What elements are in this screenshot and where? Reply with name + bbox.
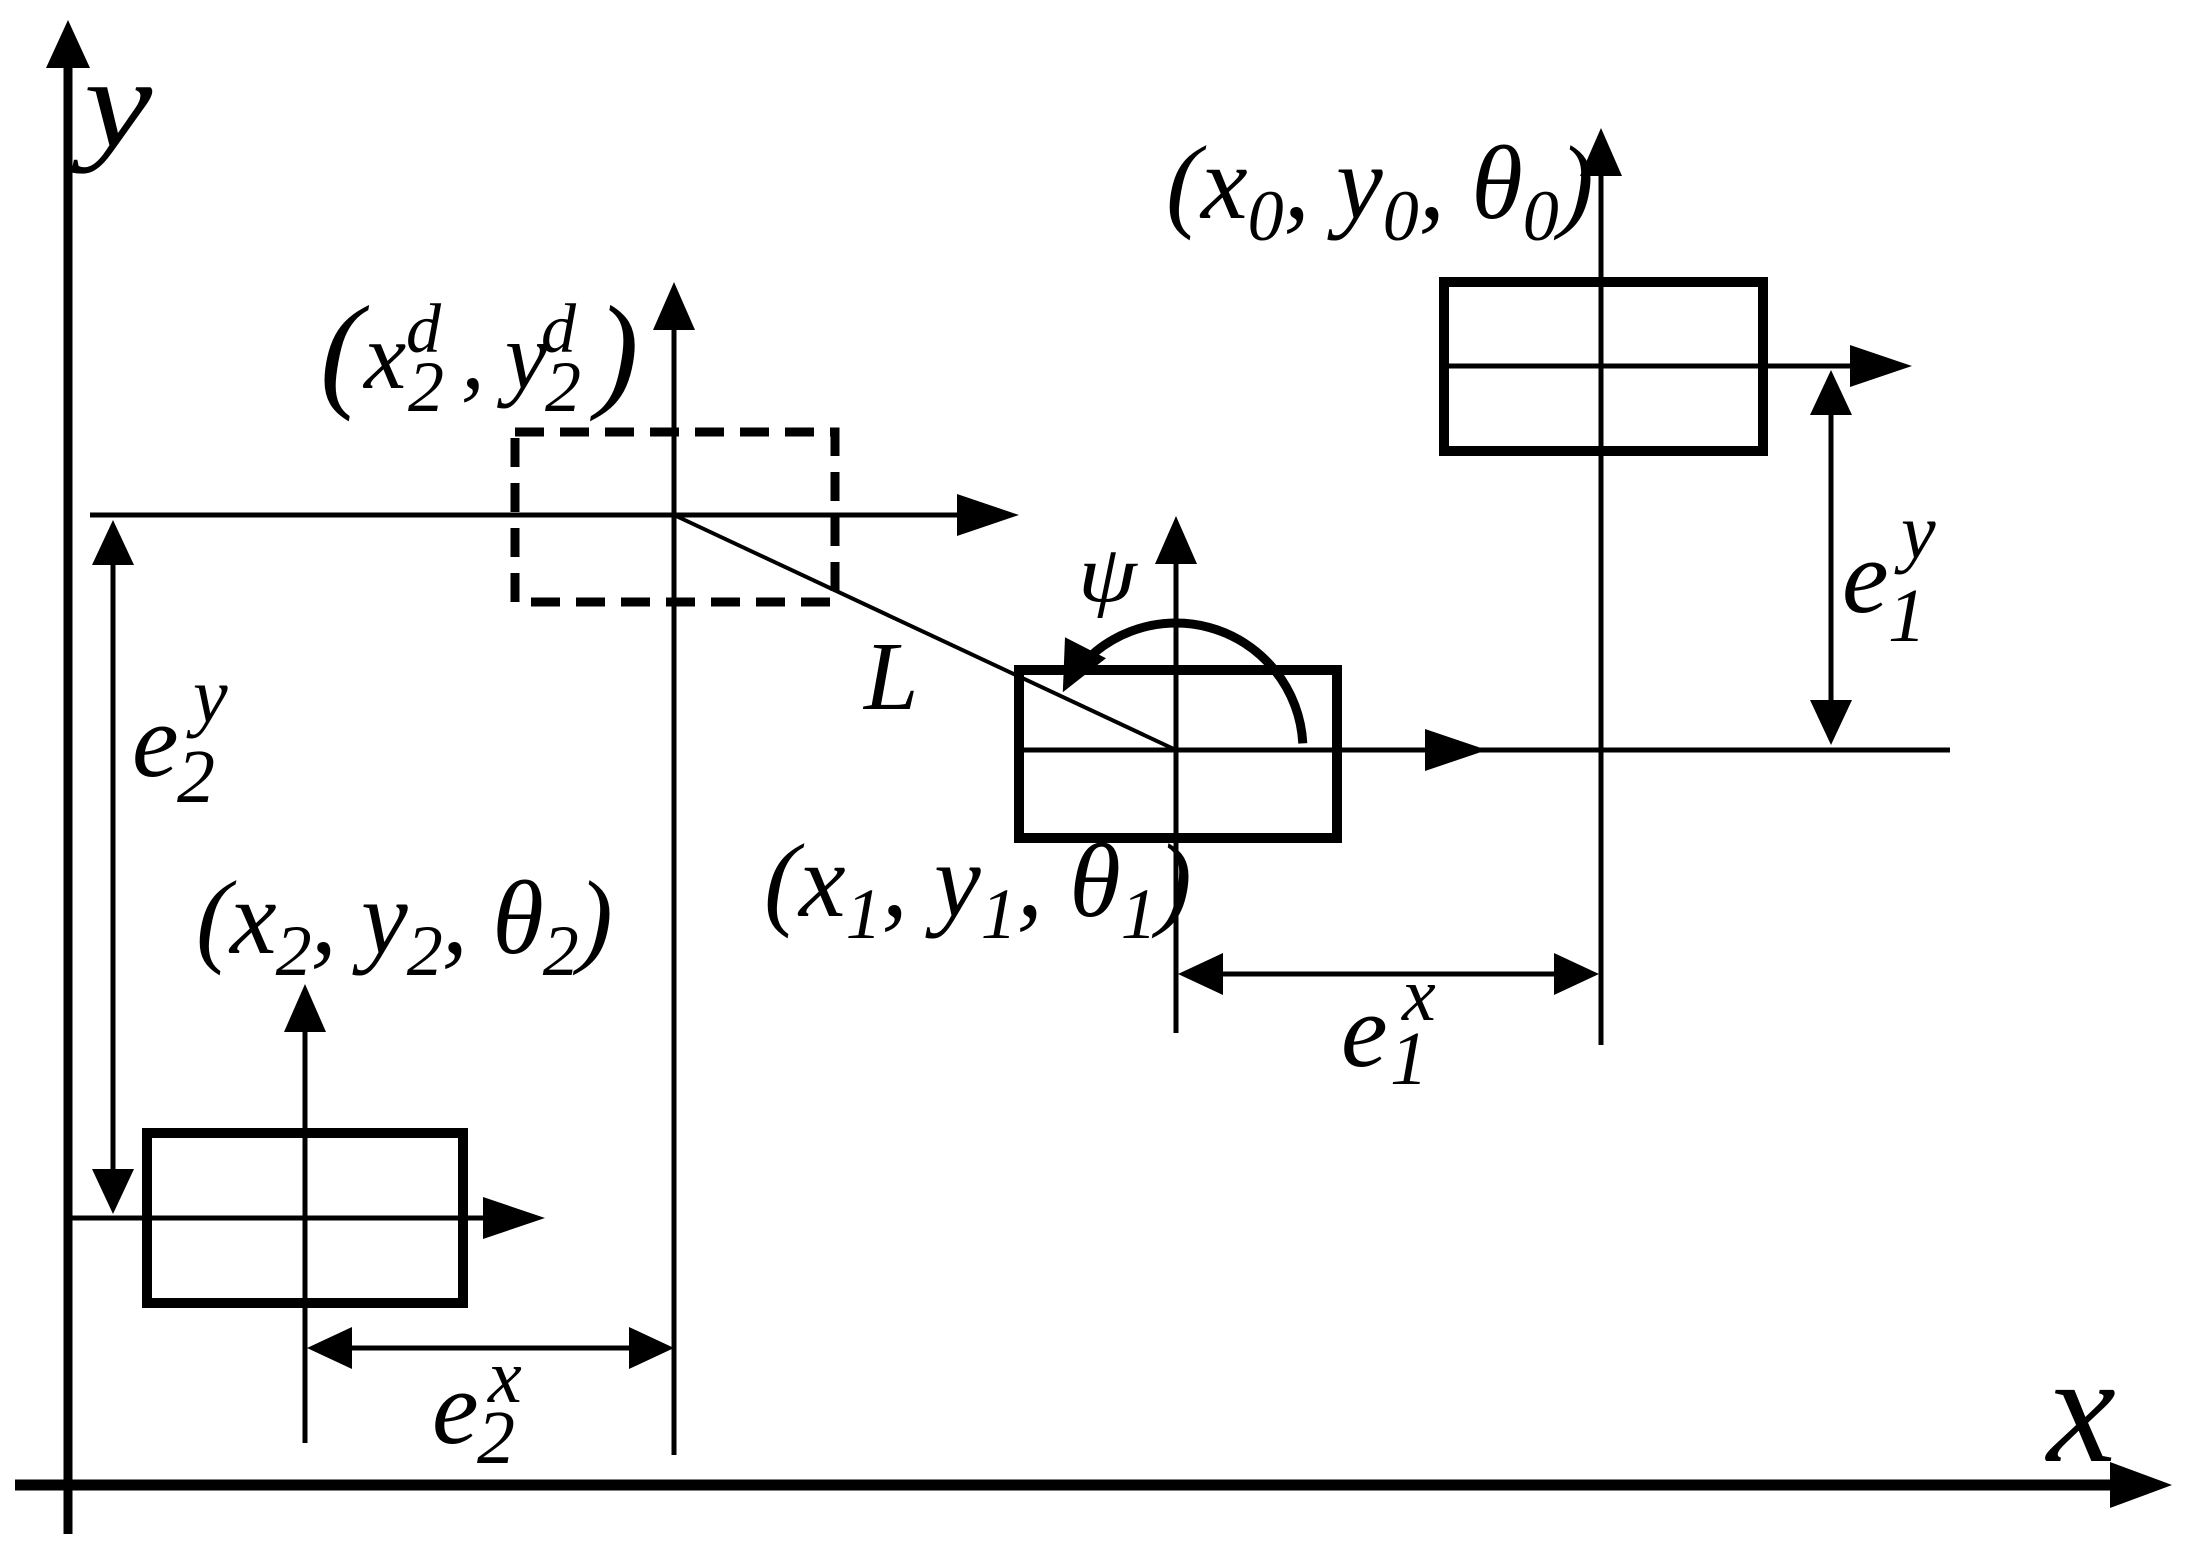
wire psi arc	[1063, 623, 1303, 743]
svg-text:L: L	[862, 623, 919, 731]
node (x0,y0,theta0) label	[1166, 124, 1594, 256]
dimension e2y	[92, 520, 134, 1214]
node e2x label	[432, 1335, 522, 1480]
vehicle 0	[1444, 282, 1763, 451]
wire desired pose y-axis	[653, 282, 695, 1455]
wire vehicle0 x-axis	[1444, 345, 1912, 387]
svg-text:ex2: ex2	[432, 1335, 522, 1480]
wire L line	[674, 515, 1176, 750]
node e2y label	[132, 652, 228, 819]
dimension e1y	[1810, 370, 1852, 745]
wire vehicle0 y-axis	[1580, 128, 1622, 1045]
svg-text:ψ: ψ	[1078, 530, 1138, 619]
dimension e1x	[1178, 953, 1599, 995]
node e1y label	[1842, 488, 1936, 658]
wire vehicle2 y-axis	[284, 984, 326, 1443]
desired pose dashed rect	[515, 432, 835, 602]
vehicle 1	[1019, 670, 1337, 838]
vehicle 2	[147, 1133, 463, 1303]
node (x1,y1,theta1) label	[764, 822, 1192, 954]
node (x2,y2,theta2) label	[196, 859, 612, 991]
wire desired pose x-axis	[90, 494, 1019, 536]
svg-text:y: y	[71, 32, 152, 174]
axis x	[15, 1462, 2172, 1508]
axis y	[46, 20, 90, 1534]
node e1x label	[1341, 953, 1436, 1101]
dimension e2x	[307, 1327, 674, 1369]
wire vehicle1 x-axis	[1019, 729, 1950, 771]
wire vehicle1 y-axis	[1155, 516, 1197, 1033]
svg-text:x: x	[2045, 1323, 2116, 1495]
wire vehicle2 x-axis	[70, 1197, 545, 1239]
node (x2d,y2d) label	[320, 280, 639, 427]
